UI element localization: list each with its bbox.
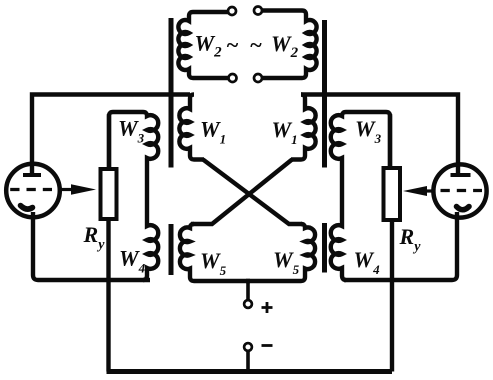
svg-text:~: ~ [226, 32, 239, 57]
svg-text:~: ~ [250, 32, 263, 57]
